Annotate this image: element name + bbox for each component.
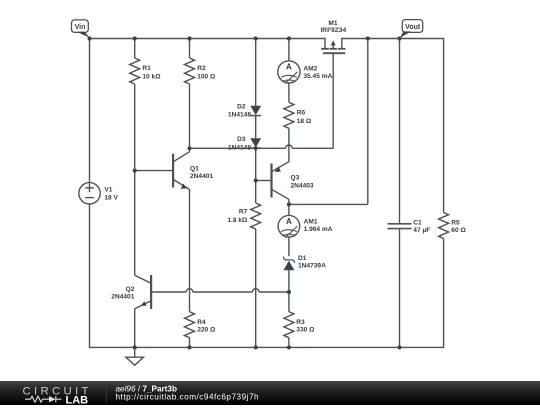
svg-text:M1: M1 [328, 20, 337, 27]
zener diode D1 [283, 257, 294, 293]
voltage source V1 [79, 183, 100, 204]
svg-text:1N4148: 1N4148 [228, 145, 251, 152]
wire top rail left [90, 38, 326, 40]
svg-text:Q1: Q1 [190, 165, 199, 172]
svg-text:D2: D2 [237, 103, 246, 110]
wire Q1 emitter to R4 [189, 189, 191, 311]
resistor R6 [284, 102, 294, 161]
resistor R5 [439, 39, 449, 348]
resistor R2 [185, 39, 195, 149]
wire Q2 base with hops [151, 289, 289, 292]
svg-text:AM1: AM1 [304, 218, 318, 225]
diode D2 [250, 39, 261, 139]
svg-text:R5: R5 [451, 220, 460, 227]
ground [126, 347, 144, 365]
svg-text:R1: R1 [142, 65, 151, 72]
svg-text:2N4401: 2N4401 [111, 294, 134, 301]
svg-text:R4: R4 [197, 319, 206, 326]
svg-text:220 Ω: 220 Ω [197, 327, 216, 334]
wire node A (R2 bottom / D3 / gate) with hop over AM line [190, 53, 334, 148]
svg-text:A: A [286, 63, 292, 72]
svg-text:Vin: Vin [75, 24, 86, 31]
svg-text:D3: D3 [237, 136, 246, 143]
svg-text:D1: D1 [298, 255, 307, 262]
flag Vin [72, 20, 91, 38]
diode D3 [250, 138, 261, 148]
resistor R3 [284, 292, 294, 347]
svg-text:IRF9Z34: IRF9Z34 [320, 27, 346, 34]
wire D3 to Q3 base junction [255, 148, 257, 180]
svg-text:35.45 mA: 35.45 mA [303, 73, 332, 80]
wire Q3 collector to right vertical [289, 39, 368, 205]
svg-text:R2: R2 [197, 65, 206, 72]
svg-text:V1: V1 [104, 187, 112, 194]
svg-text:2N4401: 2N4401 [190, 173, 213, 180]
resistor R4 [185, 312, 195, 348]
svg-text:Vout: Vout [405, 24, 421, 31]
capacitor C1 [388, 39, 412, 348]
transistor Q1 [135, 148, 190, 189]
svg-text:18 V: 18 V [104, 195, 118, 202]
ammeter AM1 [278, 204, 300, 256]
svg-text:1.8 kΩ: 1.8 kΩ [227, 217, 248, 224]
CircuitLab logo squiggle [25, 396, 62, 402]
wire left vertical V1 bottom [89, 204, 91, 347]
footer separator [105, 384, 107, 402]
flag Vout [400, 20, 423, 38]
svg-text:LAB: LAB [66, 394, 89, 405]
svg-text:1N4739A: 1N4739A [298, 263, 326, 270]
wire left vertical V1 top [89, 39, 91, 183]
transistor Q3 [256, 162, 289, 205]
svg-text:Q2: Q2 [126, 286, 135, 293]
svg-text:47 µF: 47 µF [413, 227, 430, 234]
svg-text:60 Ω: 60 Ω [451, 227, 466, 234]
resistor R1 [130, 39, 140, 276]
svg-text:100 Ω: 100 Ω [197, 73, 216, 80]
svg-text:C1: C1 [413, 220, 422, 227]
svg-text:R7: R7 [239, 209, 248, 216]
svg-text:http://circuitlab.com/c94fc6p7: http://circuitlab.com/c94fc6p739j7h [116, 392, 260, 401]
svg-text:330 Ω: 330 Ω [296, 327, 315, 334]
svg-text:10 kΩ: 10 kΩ [142, 73, 161, 80]
transistor Q2 [135, 275, 151, 347]
svg-text:Q3: Q3 [291, 175, 300, 182]
svg-text:18 Ω: 18 Ω [297, 118, 312, 125]
mosfet M1 [321, 39, 345, 54]
wire bottom rail [90, 346, 444, 348]
svg-text:AM2: AM2 [303, 66, 317, 73]
svg-text:1.964 mA: 1.964 mA [304, 226, 333, 233]
svg-text:R6: R6 [297, 109, 306, 116]
resistor R7 [251, 181, 261, 348]
svg-text:2N4403: 2N4403 [291, 182, 314, 189]
svg-text:A: A [286, 217, 292, 226]
ammeter AM2 [278, 39, 300, 103]
svg-text:1N4148: 1N4148 [228, 111, 251, 118]
wire top rail right [342, 38, 444, 40]
svg-text:R3: R3 [296, 319, 305, 326]
